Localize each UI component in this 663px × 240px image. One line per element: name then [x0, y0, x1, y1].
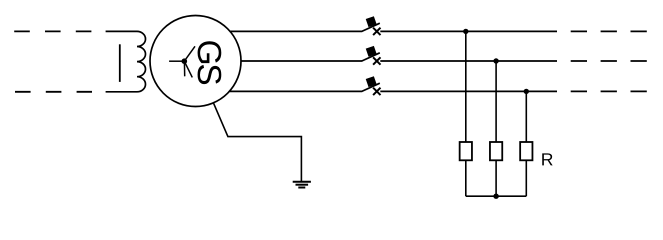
circuit breaker Q3 (phase 3)	[362, 76, 381, 95]
node junction phase 2	[493, 58, 498, 63]
wire generator neutral to earth	[213, 103, 301, 182]
wire resistor 2 to star bar	[495, 160, 497, 196]
wire resistor 1 to star bar	[465, 160, 467, 196]
wire dashed incoming line L1 (top left)	[14, 30, 92, 32]
wire phase 1 from generator to breaker Q1	[230, 30, 362, 32]
ground	[293, 182, 311, 188]
label R	[542, 153, 552, 165]
resistor R (phase 1)	[460, 142, 472, 160]
wire star point bar	[466, 195, 527, 197]
node junction phase 3	[524, 89, 529, 94]
generator G1 circle	[150, 16, 241, 107]
wire phase 3 from breaker to right	[380, 90, 557, 92]
wire dashed incoming line L3 (bottom left)	[15, 91, 92, 93]
wire phase 3 from generator to breaker Q3	[229, 90, 362, 92]
wire phase 2 from generator to breaker Q2	[241, 60, 362, 62]
wire dashed outgoing line L1 (top right)	[571, 30, 647, 32]
wire drop phase 2 to resistor	[495, 61, 497, 142]
resistor R (phase 2)	[490, 142, 502, 160]
node junction phase 1	[463, 29, 468, 34]
wire drop phase 1 to resistor	[465, 31, 467, 142]
circuit breaker Q2 (phase 2)	[362, 46, 381, 65]
wire dashed outgoing line L2 (middle right)	[571, 60, 647, 62]
inductor core bar	[119, 44, 121, 82]
wire dashed outgoing line L3 (bottom right)	[571, 90, 647, 92]
generator label GS (rotated)	[198, 41, 222, 63]
circuit breaker Q1 (phase 1)	[362, 16, 381, 35]
wire resistor 3 to star bar	[525, 160, 527, 196]
node star point	[493, 194, 498, 199]
wire drop phase 3 to resistor	[525, 91, 527, 142]
wind turbine rotor symbol	[169, 46, 195, 77]
inductor L1 winding (transformer choke)	[106, 31, 146, 91]
resistor R (phase 3)	[520, 142, 532, 160]
wire phase 1 from breaker to right	[380, 30, 557, 32]
wire phase 2 from breaker to right	[380, 60, 557, 62]
